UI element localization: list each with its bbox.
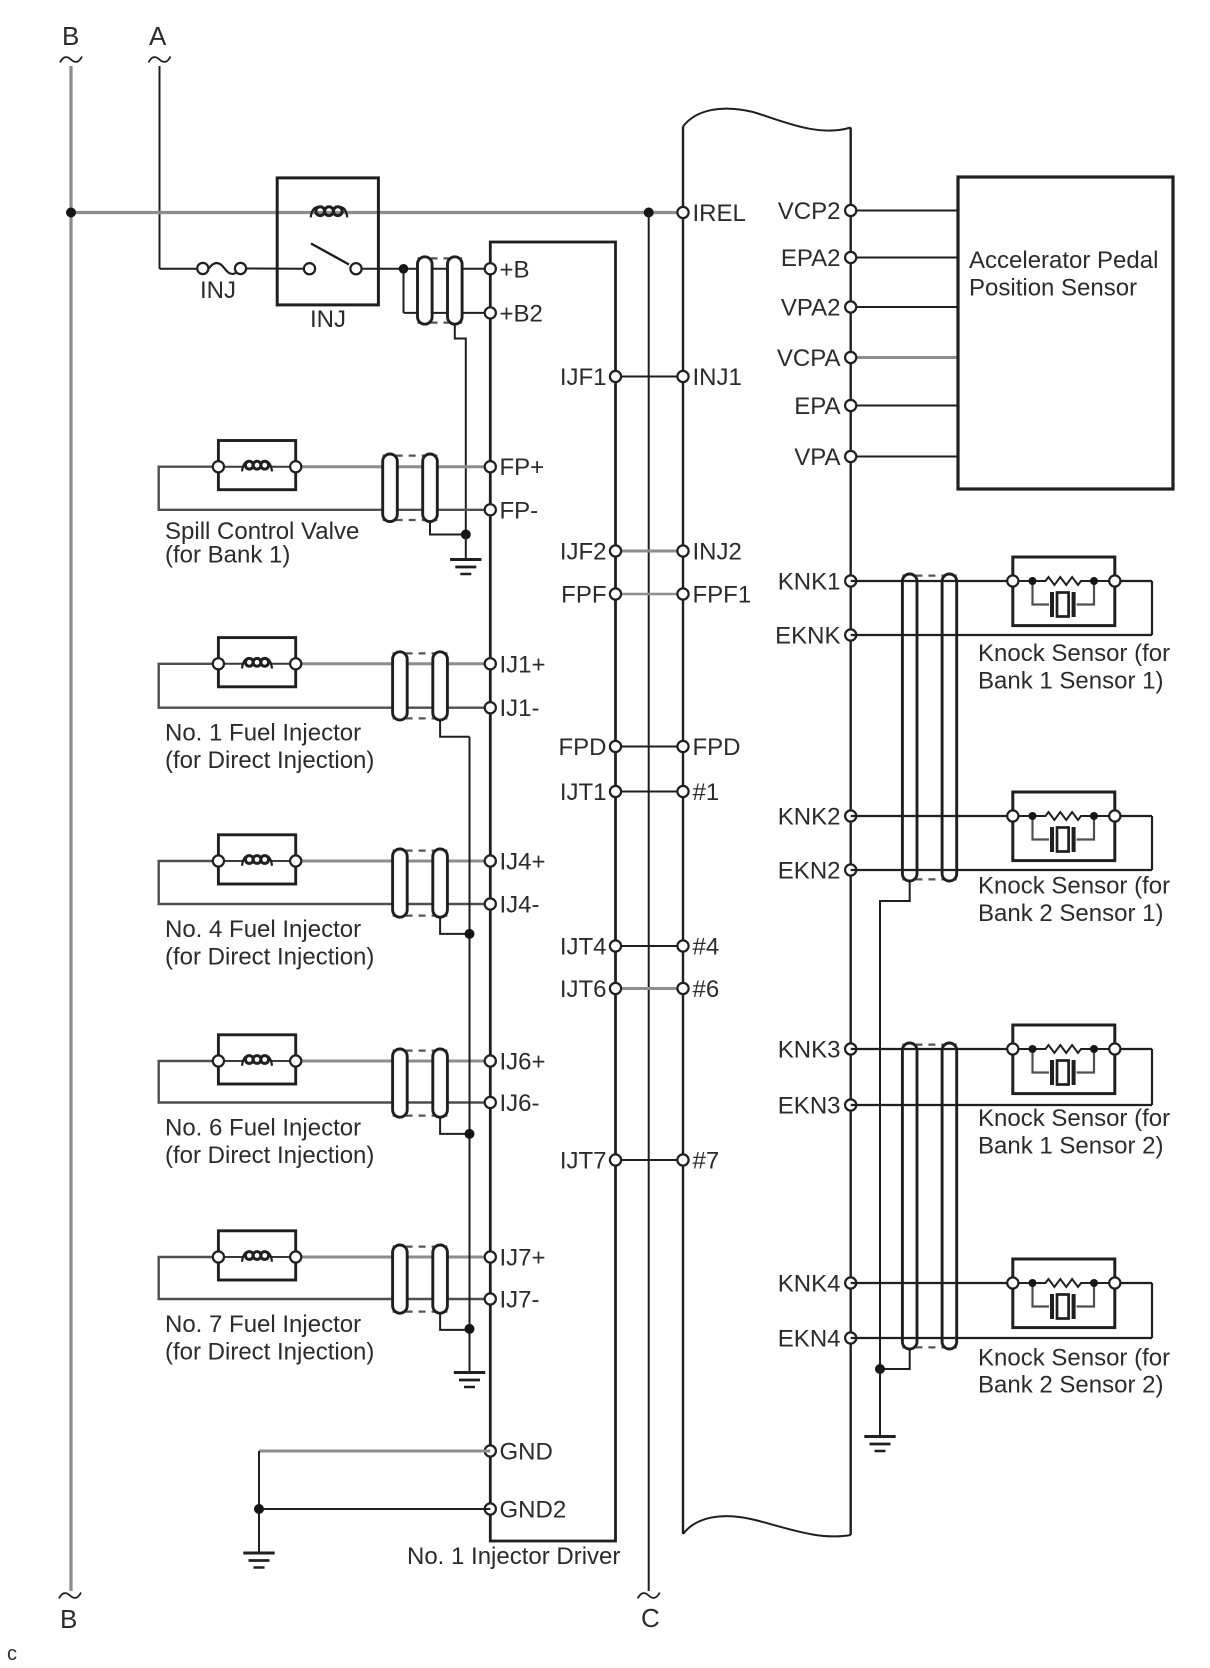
spill control valve internal wire: [221, 466, 243, 468]
wire knock sensor 4 right loop: [1120, 1282, 1152, 1284]
ECU pin #1: [677, 786, 688, 797]
wire KNK2 ECU to knock sensor 2: [851, 815, 1013, 817]
driver pin IJ7+: [485, 1251, 496, 1262]
wire ECU to accelerator pedal sensor at y=456.5: [851, 456, 958, 458]
knock sensor 4 internal nodes: [1029, 1279, 1037, 1287]
svg-text:IJT6: IJT6: [560, 976, 607, 1003]
wire injector 4 plus to driver: [301, 860, 490, 863]
svg-text:KNK2: KNK2: [778, 804, 841, 831]
svg-text:IJ7+: IJ7+: [500, 1245, 546, 1272]
svg-text:IJ4-: IJ4-: [500, 892, 540, 919]
svg-text:INJ: INJ: [200, 277, 236, 304]
shield drain wire from FP connector: [430, 522, 466, 535]
injector 4 component box: [218, 835, 295, 884]
driver pin GND2: [485, 1503, 496, 1514]
svg-text:c: c: [7, 1643, 17, 1665]
wire knock sensor 1 right loop: [1120, 580, 1152, 582]
svg-text:A: A: [149, 21, 167, 51]
driver pin IJ7-: [485, 1293, 496, 1304]
svg-text:No. 1 Fuel Injector: No. 1 Fuel Injector: [165, 720, 361, 747]
connector dashed shield lines: [393, 849, 448, 851]
wire EKN1 return: [851, 634, 1152, 636]
wire knock sensor 3 right loop: [1120, 1048, 1152, 1050]
wire branch down to +B2: [403, 269, 405, 313]
connector dashed shield lines: [393, 1245, 448, 1247]
knock sensor 4 piezo element: [1050, 1294, 1054, 1319]
svg-text:EKN3: EKN3: [778, 1093, 841, 1120]
wire EKN2 return: [851, 869, 1152, 871]
junction +B branch: [399, 264, 409, 274]
wire GND2 to ground: [259, 1508, 490, 1510]
wire KNK3 ECU to knock sensor 3: [851, 1048, 1013, 1050]
svg-text:(for Direct Injection): (for Direct Injection): [165, 1339, 374, 1366]
svg-text:INJ2: INJ2: [693, 539, 742, 566]
svg-text:IJ1-: IJ1-: [500, 695, 540, 722]
knock sensor 4 terminals: [1007, 1277, 1018, 1288]
wire ECU to accelerator pedal sensor at y=257.5: [851, 257, 958, 259]
wire injector 1 minus loop: [159, 664, 491, 708]
knock sensor 3 internal nodes: [1029, 1045, 1037, 1053]
knock sensor 3 internal resistor: [1018, 1045, 1109, 1053]
relay INJ box: [277, 178, 378, 305]
driver pin IJ6-: [485, 1097, 496, 1108]
wire IJT4 to ECU: [616, 945, 684, 947]
svg-text:IJ6+: IJ6+: [500, 1049, 546, 1076]
injector 6 internal wire: [221, 1060, 243, 1062]
spill control valve terminals: [213, 461, 224, 472]
connector dashed shield lines: [383, 455, 438, 457]
wire ECU to accelerator pedal sensor at y=405.5: [851, 405, 958, 407]
knock sensor 2 internal nodes: [1029, 812, 1037, 820]
wire knock drain to ground: [879, 1369, 881, 1436]
wire IJT6 to ECU: [616, 987, 684, 990]
wire fuse to relay: [246, 268, 304, 270]
ECU pin #6: [677, 983, 688, 994]
svg-text:FP+: FP+: [500, 454, 545, 481]
connector dashed shield lines: [902, 1043, 956, 1045]
svg-text:(for Direct Injection): (for Direct Injection): [165, 1142, 374, 1169]
knock sensor 3 piezo element: [1050, 1060, 1054, 1085]
shield drain wire from IJ7 connector: [440, 1313, 469, 1330]
wire IJF1 to ECU: [616, 376, 684, 378]
driver pin GND: [485, 1445, 496, 1456]
knock sensor 2 internal resistor: [1018, 812, 1109, 820]
svg-text:#6: #6: [693, 976, 720, 1003]
svg-text:GND2: GND2: [500, 1497, 567, 1524]
wire GND to ground: [259, 1450, 490, 1453]
wire IJT1 to ECU: [616, 791, 684, 793]
injector 4 terminals: [213, 855, 224, 866]
bus A vertical wire: [159, 66, 161, 269]
svg-text:Knock Sensor (for: Knock Sensor (for: [978, 640, 1170, 667]
svg-text:EPA2: EPA2: [781, 245, 841, 272]
svg-text:EKNK: EKNK: [775, 623, 840, 650]
connector loop 2: [942, 574, 957, 881]
junction of shield drains: [461, 530, 471, 540]
connector dashed shield lines: [902, 574, 956, 576]
knock sensor 3 piezo element wiring: [1033, 1049, 1050, 1073]
svg-text:IREL: IREL: [693, 200, 746, 227]
wire injector 4 minus loop: [159, 861, 491, 904]
driver pin IJ4+: [485, 855, 496, 866]
driver pin +B: [485, 263, 496, 274]
ECU connector band right edge: [850, 128, 852, 1536]
svg-text:VCP2: VCP2: [778, 198, 841, 225]
svg-text:KNK4: KNK4: [778, 1271, 841, 1298]
knock sensor 1 internal nodes: [1029, 577, 1037, 585]
connector loop 2: [433, 652, 448, 720]
knock sensor 1 box: [1013, 557, 1115, 626]
wire drain to ground: [465, 535, 467, 560]
break symbol top of bus A: [149, 57, 171, 63]
svg-text:IJT1: IJT1: [560, 779, 607, 806]
svg-text:C: C: [641, 1603, 660, 1633]
shield drain wire from +B connector: [455, 324, 466, 534]
wire FPD to ECU: [616, 746, 684, 748]
wire KNK4 ECU to knock sensor 4: [851, 1282, 1013, 1284]
ECU pin #7: [677, 1154, 688, 1165]
svg-text:EPA: EPA: [794, 393, 840, 420]
wire spill control valve plus to driver: [301, 465, 490, 468]
wire A to fuse INJ: [160, 268, 198, 270]
svg-text:No. 4 Fuel Injector: No. 4 Fuel Injector: [165, 916, 361, 943]
connector dashed shield lines: [393, 652, 448, 654]
ECU pin FPF1: [677, 588, 688, 599]
wire ground drop: [258, 1451, 260, 1553]
svg-text:EKN2: EKN2: [778, 858, 841, 885]
injector 4 internal wire: [221, 860, 243, 862]
connector loop 1: [902, 574, 917, 881]
svg-text:#1: #1: [693, 779, 720, 806]
svg-text:#7: #7: [693, 1148, 720, 1175]
driver pin IJ6+: [485, 1055, 496, 1066]
connector loop 1: [383, 454, 398, 522]
wire EKN4 return: [851, 1337, 1152, 1339]
svg-text:INJ: INJ: [310, 306, 346, 333]
svg-text:(for Direct Injection): (for Direct Injection): [165, 747, 374, 774]
wire injector 6 minus loop: [159, 1061, 491, 1103]
relay INJ switch contacts: [304, 263, 315, 274]
wire KNK1 ECU to knock sensor 1: [851, 580, 1013, 582]
connector dashed shield lines: [418, 257, 463, 259]
injector 1 terminals: [213, 658, 224, 669]
svg-text:IJT7: IJT7: [560, 1148, 607, 1175]
knock sensor 3 terminals: [1007, 1043, 1018, 1054]
driver pin IJ1-: [485, 702, 496, 713]
ECU pin IREL: [677, 207, 688, 218]
shield drain wire from IJ4 connector: [440, 917, 469, 934]
ECU connector band left edge: [682, 127, 684, 1535]
ECU pin INJ1: [677, 371, 688, 382]
wire IJT7 to ECU: [616, 1159, 684, 1161]
svg-text:IJ7-: IJ7-: [500, 1287, 540, 1314]
knock sensor 1 piezo element: [1050, 592, 1054, 617]
svg-text:(for Bank 1): (for Bank 1): [165, 542, 290, 569]
svg-text:Knock Sensor (for: Knock Sensor (for: [978, 1105, 1170, 1132]
connector loop 2: [942, 1043, 957, 1349]
junction injector drain IJ4: [465, 929, 475, 939]
junction injector drain IJ6: [465, 1129, 475, 1139]
shield drain wire from IJ1 connector: [440, 720, 469, 737]
junction on bus B: [66, 208, 76, 218]
break symbol bottom of bus C: [638, 1593, 660, 1599]
svg-text:Accelerator Pedal: Accelerator Pedal: [969, 247, 1158, 274]
svg-text:No. 6 Fuel Injector: No. 6 Fuel Injector: [165, 1115, 361, 1142]
svg-text:GND: GND: [500, 1439, 553, 1466]
ECU pin #4: [677, 940, 688, 951]
svg-text:VCPA: VCPA: [777, 345, 841, 372]
connector dashed shield lines: [393, 1049, 448, 1051]
injector 1 coil: [242, 658, 249, 668]
svg-text:IJ4+: IJ4+: [500, 849, 546, 876]
driver pin IJ1+: [485, 658, 496, 669]
knock sensor 2 box: [1013, 792, 1115, 861]
svg-text:FPD: FPD: [559, 734, 607, 761]
svg-text:IJ1+: IJ1+: [500, 651, 546, 678]
wire IJF2 to ECU: [616, 550, 684, 553]
ECU pin INJ2: [677, 545, 688, 556]
knock sensor 1 terminals: [1007, 575, 1018, 586]
knock sensor 2 piezo element wiring: [1033, 816, 1050, 840]
wire to pin +B2: [404, 312, 491, 314]
svg-text:IJF1: IJF1: [560, 364, 607, 391]
svg-text:No. 1 Injector Driver: No. 1 Injector Driver: [407, 1543, 620, 1570]
injector 7 coil: [242, 1251, 249, 1261]
injector 1 internal wire: [221, 663, 243, 665]
ground for driver GND: [243, 1552, 274, 1555]
svg-text:KNK1: KNK1: [778, 569, 841, 596]
injector 7 terminals: [213, 1251, 224, 1262]
wire ECU to accelerator pedal sensor at y=357.5: [851, 356, 958, 359]
knock sensor 4 internal resistor: [1018, 1279, 1109, 1287]
shield drain wire knock 1/2: [880, 881, 910, 1369]
connector loop 2: [423, 454, 438, 522]
knock sensor 3 box: [1013, 1025, 1115, 1094]
shield drain wire knock 3/4: [880, 1349, 910, 1369]
svg-text:FPD: FPD: [693, 734, 741, 761]
Accelerator Pedal Position Sensor box: [958, 177, 1173, 489]
driver pin FP+: [485, 461, 496, 472]
wire knock sensor 2 right loop: [1120, 815, 1152, 817]
injector 6 terminals: [213, 1055, 224, 1066]
wire ECU to accelerator pedal sensor at y=307: [851, 306, 958, 308]
connector loop 1: [393, 1049, 408, 1117]
svg-text:KNK3: KNK3: [778, 1037, 841, 1064]
svg-text:(for Direct Injection): (for Direct Injection): [165, 944, 374, 971]
svg-text:Bank 2 Sensor 1): Bank 2 Sensor 1): [978, 900, 1163, 927]
connector loop 2: [448, 257, 463, 324]
svg-text:IJT4: IJT4: [560, 934, 607, 961]
svg-text:EKN4: EKN4: [778, 1326, 841, 1353]
ECU band torn top edge: [683, 109, 851, 131]
knock sensor 4 piezo element wiring: [1033, 1283, 1050, 1307]
svg-text:#4: #4: [693, 934, 720, 961]
svg-text:Bank 2 Sensor 2): Bank 2 Sensor 2): [978, 1372, 1163, 1399]
svg-text:VPA2: VPA2: [781, 295, 841, 322]
knock sensor 1 internal resistor: [1018, 577, 1109, 585]
connector loop 1: [393, 849, 408, 917]
ground for FP shield: [450, 558, 481, 561]
svg-text:B: B: [60, 1604, 77, 1634]
junction of knock shield drains: [875, 1364, 885, 1374]
svg-text:Bank 1 Sensor 1): Bank 1 Sensor 1): [978, 668, 1163, 695]
connector loop 2: [433, 849, 448, 917]
break symbol bottom of bus B: [59, 1593, 81, 1599]
svg-text:No. 7 Fuel Injector: No. 7 Fuel Injector: [165, 1311, 361, 1338]
svg-text:+B2: +B2: [500, 300, 543, 327]
ground for knock shields: [864, 1435, 895, 1438]
injector 7 component box: [218, 1231, 295, 1280]
svg-text:VPA: VPA: [794, 444, 840, 471]
No. 1 Injector Driver box: [490, 242, 615, 1541]
wire relay to pin +B: [362, 268, 491, 270]
fuse INJ: [209, 263, 241, 274]
shield drain bus for injectors: [469, 737, 471, 1372]
junction GND/GND2: [254, 1504, 264, 1514]
svg-text:Bank 1 Sensor 2): Bank 1 Sensor 2): [978, 1133, 1163, 1160]
spill control valve coil: [242, 461, 249, 471]
svg-text:IJF2: IJF2: [560, 539, 607, 566]
wire FPF to ECU: [616, 593, 684, 596]
injector 4 coil: [242, 855, 249, 865]
connector loop 2: [433, 1245, 448, 1313]
wire spill control valve minus loop: [159, 467, 491, 510]
spill control valve component box: [218, 441, 295, 490]
svg-text:Knock Sensor (for: Knock Sensor (for: [978, 1345, 1170, 1372]
wire injector 7 plus to driver: [301, 1256, 490, 1259]
wire injector 1 plus to driver: [301, 662, 490, 665]
knock sensor 2 piezo element: [1050, 827, 1054, 852]
connector loop 1: [902, 1043, 917, 1349]
knock sensor 2 terminals: [1007, 810, 1018, 821]
svg-text:INJ1: INJ1: [693, 364, 742, 391]
injector 7 internal wire: [221, 1256, 243, 1258]
svg-text:FPF1: FPF1: [693, 582, 752, 609]
svg-text:+B: +B: [500, 256, 530, 283]
knock sensor 1 piezo element wiring: [1033, 581, 1050, 605]
wire injector 7 minus loop: [159, 1257, 491, 1299]
ECU band torn bottom edge: [683, 1516, 851, 1536]
injector 6 coil: [242, 1055, 249, 1065]
svg-text:IJ6-: IJ6-: [500, 1090, 540, 1117]
wire injector 6 plus to driver: [301, 1060, 490, 1063]
driver pin +B2: [485, 307, 496, 318]
connector loop 2: [433, 1049, 448, 1117]
relay INJ coil: [311, 207, 318, 217]
svg-text:B: B: [62, 21, 79, 51]
junction at node C top: [644, 208, 654, 218]
junction injector drain IJ7: [465, 1324, 475, 1334]
injector 6 component box: [218, 1035, 295, 1084]
ground for injector shields: [454, 1371, 485, 1374]
injector 1 component box: [218, 638, 295, 687]
connector loop 1: [418, 257, 433, 324]
connector loop 1: [393, 1245, 408, 1313]
relay INJ switch blade: [311, 244, 349, 265]
shield drain wire from IJ6 connector: [440, 1117, 469, 1134]
svg-text:Knock Sensor (for: Knock Sensor (for: [978, 873, 1170, 900]
bus C vertical wire: [648, 213, 650, 1592]
svg-text:FPF: FPF: [561, 582, 606, 609]
driver pin IJ4-: [485, 898, 496, 909]
knock sensor 4 box: [1013, 1259, 1115, 1328]
svg-text:FP-: FP-: [500, 497, 539, 524]
wire main power feed to IREL: [71, 211, 678, 214]
wire EKN3 return: [851, 1104, 1152, 1106]
bus B vertical wire: [69, 66, 72, 1591]
break symbol top of bus B: [60, 57, 82, 63]
ECU pin FPD: [677, 741, 688, 752]
driver pin FP-: [485, 504, 496, 515]
connector loop 1: [393, 652, 408, 720]
wire ECU to accelerator pedal sensor at y=210.5: [851, 210, 958, 212]
svg-text:Position Sensor: Position Sensor: [969, 275, 1137, 302]
